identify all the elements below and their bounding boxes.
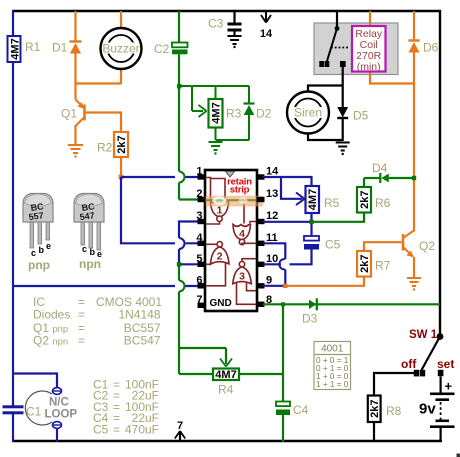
wire R7 top to Q2 base: [364, 242, 402, 251]
resistor R3 4M7: [209, 99, 242, 128]
wire N/C loop bottom lead: [56, 428, 58, 442]
wire left rail (blue) upper: [12, 10, 14, 36]
svg-text:off: off: [401, 357, 417, 371]
retain strip wire (green) pin2 to pin13: [198, 199, 263, 201]
gate 3 (NOR, pins 8,9 in / 10 out): [233, 259, 256, 305]
svg-text:10: 10: [266, 253, 278, 265]
node pin8/C4 junction: [281, 302, 285, 306]
svg-text:4001: 4001: [321, 344, 344, 355]
capacitor C4 22uF: [276, 402, 309, 443]
svg-text:470uF: 470uF: [125, 422, 159, 436]
wire R3/D2 branch top: [179, 86, 249, 111]
wire green down to R4 (hop over pin6 wire): [179, 266, 226, 374]
svg-text:C5: C5: [93, 422, 109, 436]
svg-text:2k7: 2k7: [369, 400, 381, 418]
wire Q1 base to R2: [86, 113, 122, 133]
svg-text:Siren: Siren: [294, 106, 322, 120]
wire left rail (blue) lower: [12, 414, 14, 442]
switch SW1: [401, 329, 454, 376]
svg-text:R4: R4: [218, 383, 234, 397]
wire pin10 lead: [263, 263, 281, 265]
svg-text:C4: C4: [293, 403, 309, 417]
svg-text:D6: D6: [423, 41, 439, 55]
svg-text:547: 547: [79, 210, 95, 222]
transistor package BC547 (npn): [74, 194, 104, 272]
svg-text:4: 4: [239, 228, 245, 240]
relay contact: [319, 26, 350, 67]
svg-text:R1: R1: [25, 40, 41, 54]
resistor R7 2k7: [357, 251, 391, 277]
transistor package BC557 (pnp): [23, 194, 53, 273]
node D4 junction (green): [412, 176, 416, 180]
capacitor C5 470uF: [290, 224, 341, 264]
relay coil label box: [352, 26, 386, 72]
svg-text:4M7: 4M7: [211, 102, 223, 123]
wire pin2 lead: [179, 198, 199, 200]
diode D4: [364, 161, 414, 183]
wire pin9 lead: [263, 285, 285, 287]
IC pin stubs and numbers: [198, 174, 265, 308]
svg-text:=: =: [113, 422, 120, 436]
wire pin1 net from R2 junction: [121, 176, 199, 178]
svg-text:2k7: 2k7: [359, 191, 371, 209]
diode D1: [52, 41, 82, 55]
svg-text:e: e: [46, 241, 51, 251]
svg-text:Q1: Q1: [61, 107, 77, 121]
svg-text:14: 14: [260, 28, 273, 40]
svg-text:7: 7: [196, 294, 202, 306]
resistor R8 2k7: [368, 396, 402, 423]
wire D4 to R6 top: [363, 178, 365, 187]
diode D5: [337, 86, 368, 141]
diode D6: [408, 41, 438, 55]
wire pin5 lead: [179, 263, 199, 265]
svg-text:c: c: [82, 244, 87, 254]
wire green main vertical C2 to pin2 (hop over pin1 wire): [178, 54, 180, 199]
wire buzzer bottom lead: [120, 68, 122, 84]
svg-text:R6: R6: [375, 196, 391, 210]
N/C loop: [25, 388, 77, 429]
svg-text:2k7: 2k7: [359, 255, 371, 273]
svg-text:4M7: 4M7: [10, 38, 22, 59]
arrow into R4: [220, 359, 232, 367]
svg-text:1 + 1 = 0: 1 + 1 = 0: [316, 380, 349, 389]
IC notch: [226, 172, 235, 178]
svg-text:b: b: [39, 245, 45, 255]
siren: [287, 86, 343, 141]
svg-text:LOOP: LOOP: [45, 409, 78, 421]
wire buzzer top lead: [120, 11, 122, 29]
svg-text:c: c: [31, 248, 36, 258]
wire right rail: [439, 10, 441, 337]
wire R4 right to C4 vertical: [239, 373, 283, 375]
svg-text:6: 6: [196, 274, 202, 286]
node pin9 junction (orange): [283, 284, 287, 288]
wire N/C loop branch: [13, 374, 57, 389]
svg-text:Q2 npn: Q2 npn: [33, 334, 68, 348]
svg-text:D5: D5: [353, 109, 369, 123]
svg-text:R7: R7: [375, 259, 391, 273]
gate 4 (NOR, pins 12,13 in / 11 out): [233, 203, 256, 245]
svg-text:C2: C2: [154, 42, 170, 56]
wire pin8 green to right rail: [263, 303, 440, 305]
svg-text:R5: R5: [324, 196, 340, 210]
svg-text:3: 3: [239, 271, 245, 283]
svg-text:pnp: pnp: [28, 258, 50, 272]
corner artifact: [457, 454, 460, 457]
battery 9v: [419, 376, 455, 442]
svg-text:14: 14: [266, 166, 279, 178]
svg-text:b: b: [90, 247, 96, 257]
svg-text:1N4148: 1N4148: [118, 308, 160, 322]
ground below Q2: [407, 278, 421, 291]
wire bottom 0V rail: [12, 440, 442, 442]
wire D6 top lead: [413, 11, 415, 41]
svg-text:557: 557: [28, 210, 44, 222]
svg-text:C5: C5: [325, 238, 341, 252]
resistor R2 2k7: [97, 132, 128, 157]
svg-text:BC547: BC547: [124, 334, 161, 348]
svg-text:5: 5: [196, 253, 202, 265]
svg-text:4M7: 4M7: [307, 189, 319, 210]
svg-text:D3: D3: [302, 312, 318, 326]
svg-text:Diodes: Diodes: [33, 308, 70, 322]
gate 1 (NOR, pins 1,2 in / 3 out): [207, 178, 229, 225]
wire orange pin9-node to R7 bottom: [285, 277, 364, 286]
svg-text:R2: R2: [97, 141, 113, 155]
svg-text:2: 2: [217, 251, 223, 263]
svg-text:D1: D1: [52, 41, 68, 55]
svg-text:D4: D4: [372, 161, 388, 175]
resistor R1 4M7: [8, 36, 41, 62]
wire off contact to R8: [374, 373, 414, 396]
wire C4 vertical: [282, 304, 284, 401]
svg-text:2k7: 2k7: [116, 135, 128, 153]
wire top +V rail: [12, 10, 441, 12]
svg-text:9v: 9v: [419, 401, 436, 418]
wire R8 bottom to rail: [373, 422, 375, 442]
capacitor C1 100nF (on left rail): [3, 405, 42, 419]
wire pin11 down to pin9 (hop over pin10 wire): [263, 243, 285, 286]
wire D1 bottom to Q1 emitter node: [76, 54, 122, 84]
gate 2 (NOR, pins 5,6 in / 4 out): [207, 242, 230, 286]
transistor Q1 BC557 pnp: [61, 84, 85, 145]
node green branch junction: [177, 84, 181, 88]
capacitor C3 100nF: [208, 11, 242, 35]
capacitor value list text: [93, 378, 159, 437]
node R2/pin1/pin4 junction: [119, 175, 124, 180]
wire arrow branch into R5: [281, 177, 302, 199]
resistor R6 2k7: [357, 187, 391, 213]
resistor R5 4M7: [306, 186, 340, 213]
svg-text:GND: GND: [210, 298, 232, 309]
pin 7 ground arrow: [175, 420, 185, 442]
wire pin6 net from left rail: [13, 285, 199, 287]
wire C2 top lead (green): [178, 11, 180, 43]
svg-text:7: 7: [177, 420, 183, 432]
svg-text:set: set: [437, 357, 454, 371]
svg-text:1: 1: [196, 166, 202, 178]
wire R2 bottom: [120, 157, 122, 177]
svg-text:Q2: Q2: [419, 239, 435, 253]
wire left rail (blue) middle: [12, 61, 14, 406]
svg-text:9: 9: [266, 274, 272, 286]
pin 14 supply arrow: [260, 11, 273, 40]
svg-text:2: 2: [196, 188, 202, 200]
wire R3/D2 bottom: [216, 115, 250, 140]
component list text: [33, 295, 162, 348]
wire pin12 lead: [263, 221, 312, 223]
wire R5 bottom to pin12 node: [310, 213, 312, 222]
svg-text:C3: C3: [208, 17, 224, 31]
svg-text:R8: R8: [386, 404, 402, 418]
svg-text:Buzzer: Buzzer: [102, 42, 139, 56]
wire green pin12-node to R6 bottom: [312, 213, 365, 222]
truth table 4001: [314, 342, 351, 390]
ground below C3: [228, 36, 242, 48]
node pin5 junction (green): [177, 262, 181, 266]
resistor R4 4M7 (horizontal): [213, 369, 239, 397]
svg-text:12: 12: [266, 210, 278, 222]
wire relay coil bottom to D6 node: [370, 70, 414, 84]
svg-text:R3: R3: [226, 107, 242, 121]
wire R2 junction down to pin4 net: [121, 177, 199, 243]
svg-text:4: 4: [196, 232, 203, 244]
wire relay contact feed (black): [336, 11, 338, 29]
wire orange right vertical (D6 to Q2 collector): [413, 53, 415, 232]
svg-text:11: 11: [266, 232, 278, 244]
wire D1 top lead: [74, 11, 76, 42]
svg-text:3: 3: [196, 210, 202, 222]
diode D2: [244, 104, 272, 121]
arrow into R3: [199, 105, 207, 117]
svg-text:=: =: [78, 308, 85, 322]
svg-text:strip: strip: [230, 185, 250, 196]
svg-text:SW 1: SW 1: [409, 329, 438, 341]
diode D3: [302, 298, 318, 325]
svg-text:C1: C1: [26, 405, 42, 419]
transistor Q2 BC547 npn: [403, 231, 435, 278]
svg-text:(min): (min): [357, 61, 381, 73]
buzzer: [101, 28, 142, 69]
relay box: [314, 23, 398, 75]
capacitor C2 22uF: [154, 42, 188, 56]
svg-text:13: 13: [266, 188, 278, 200]
IC U1 CMOS 4001 body: [205, 170, 257, 311]
node pin12 junction (green): [309, 220, 313, 224]
ground below R3: [209, 142, 223, 155]
wire relay coil lead (hidden behind label box): [369, 11, 371, 30]
ground below Q1: [68, 145, 83, 158]
svg-text:4M7: 4M7: [215, 369, 236, 381]
svg-text:N/C: N/C: [49, 397, 69, 409]
svg-text:npn: npn: [79, 257, 101, 271]
retain strip highlight band: [206, 196, 264, 207]
wire relay contact to siren node: [342, 67, 344, 86]
wire pin14 to R5: [263, 177, 312, 186]
svg-text:D2: D2: [256, 107, 272, 121]
ground below siren/D5: [336, 143, 350, 156]
svg-text:+: +: [445, 379, 453, 394]
wire pin3 to pin5 link (hop over pin4 wire): [179, 222, 199, 265]
svg-text:=: =: [78, 334, 85, 348]
